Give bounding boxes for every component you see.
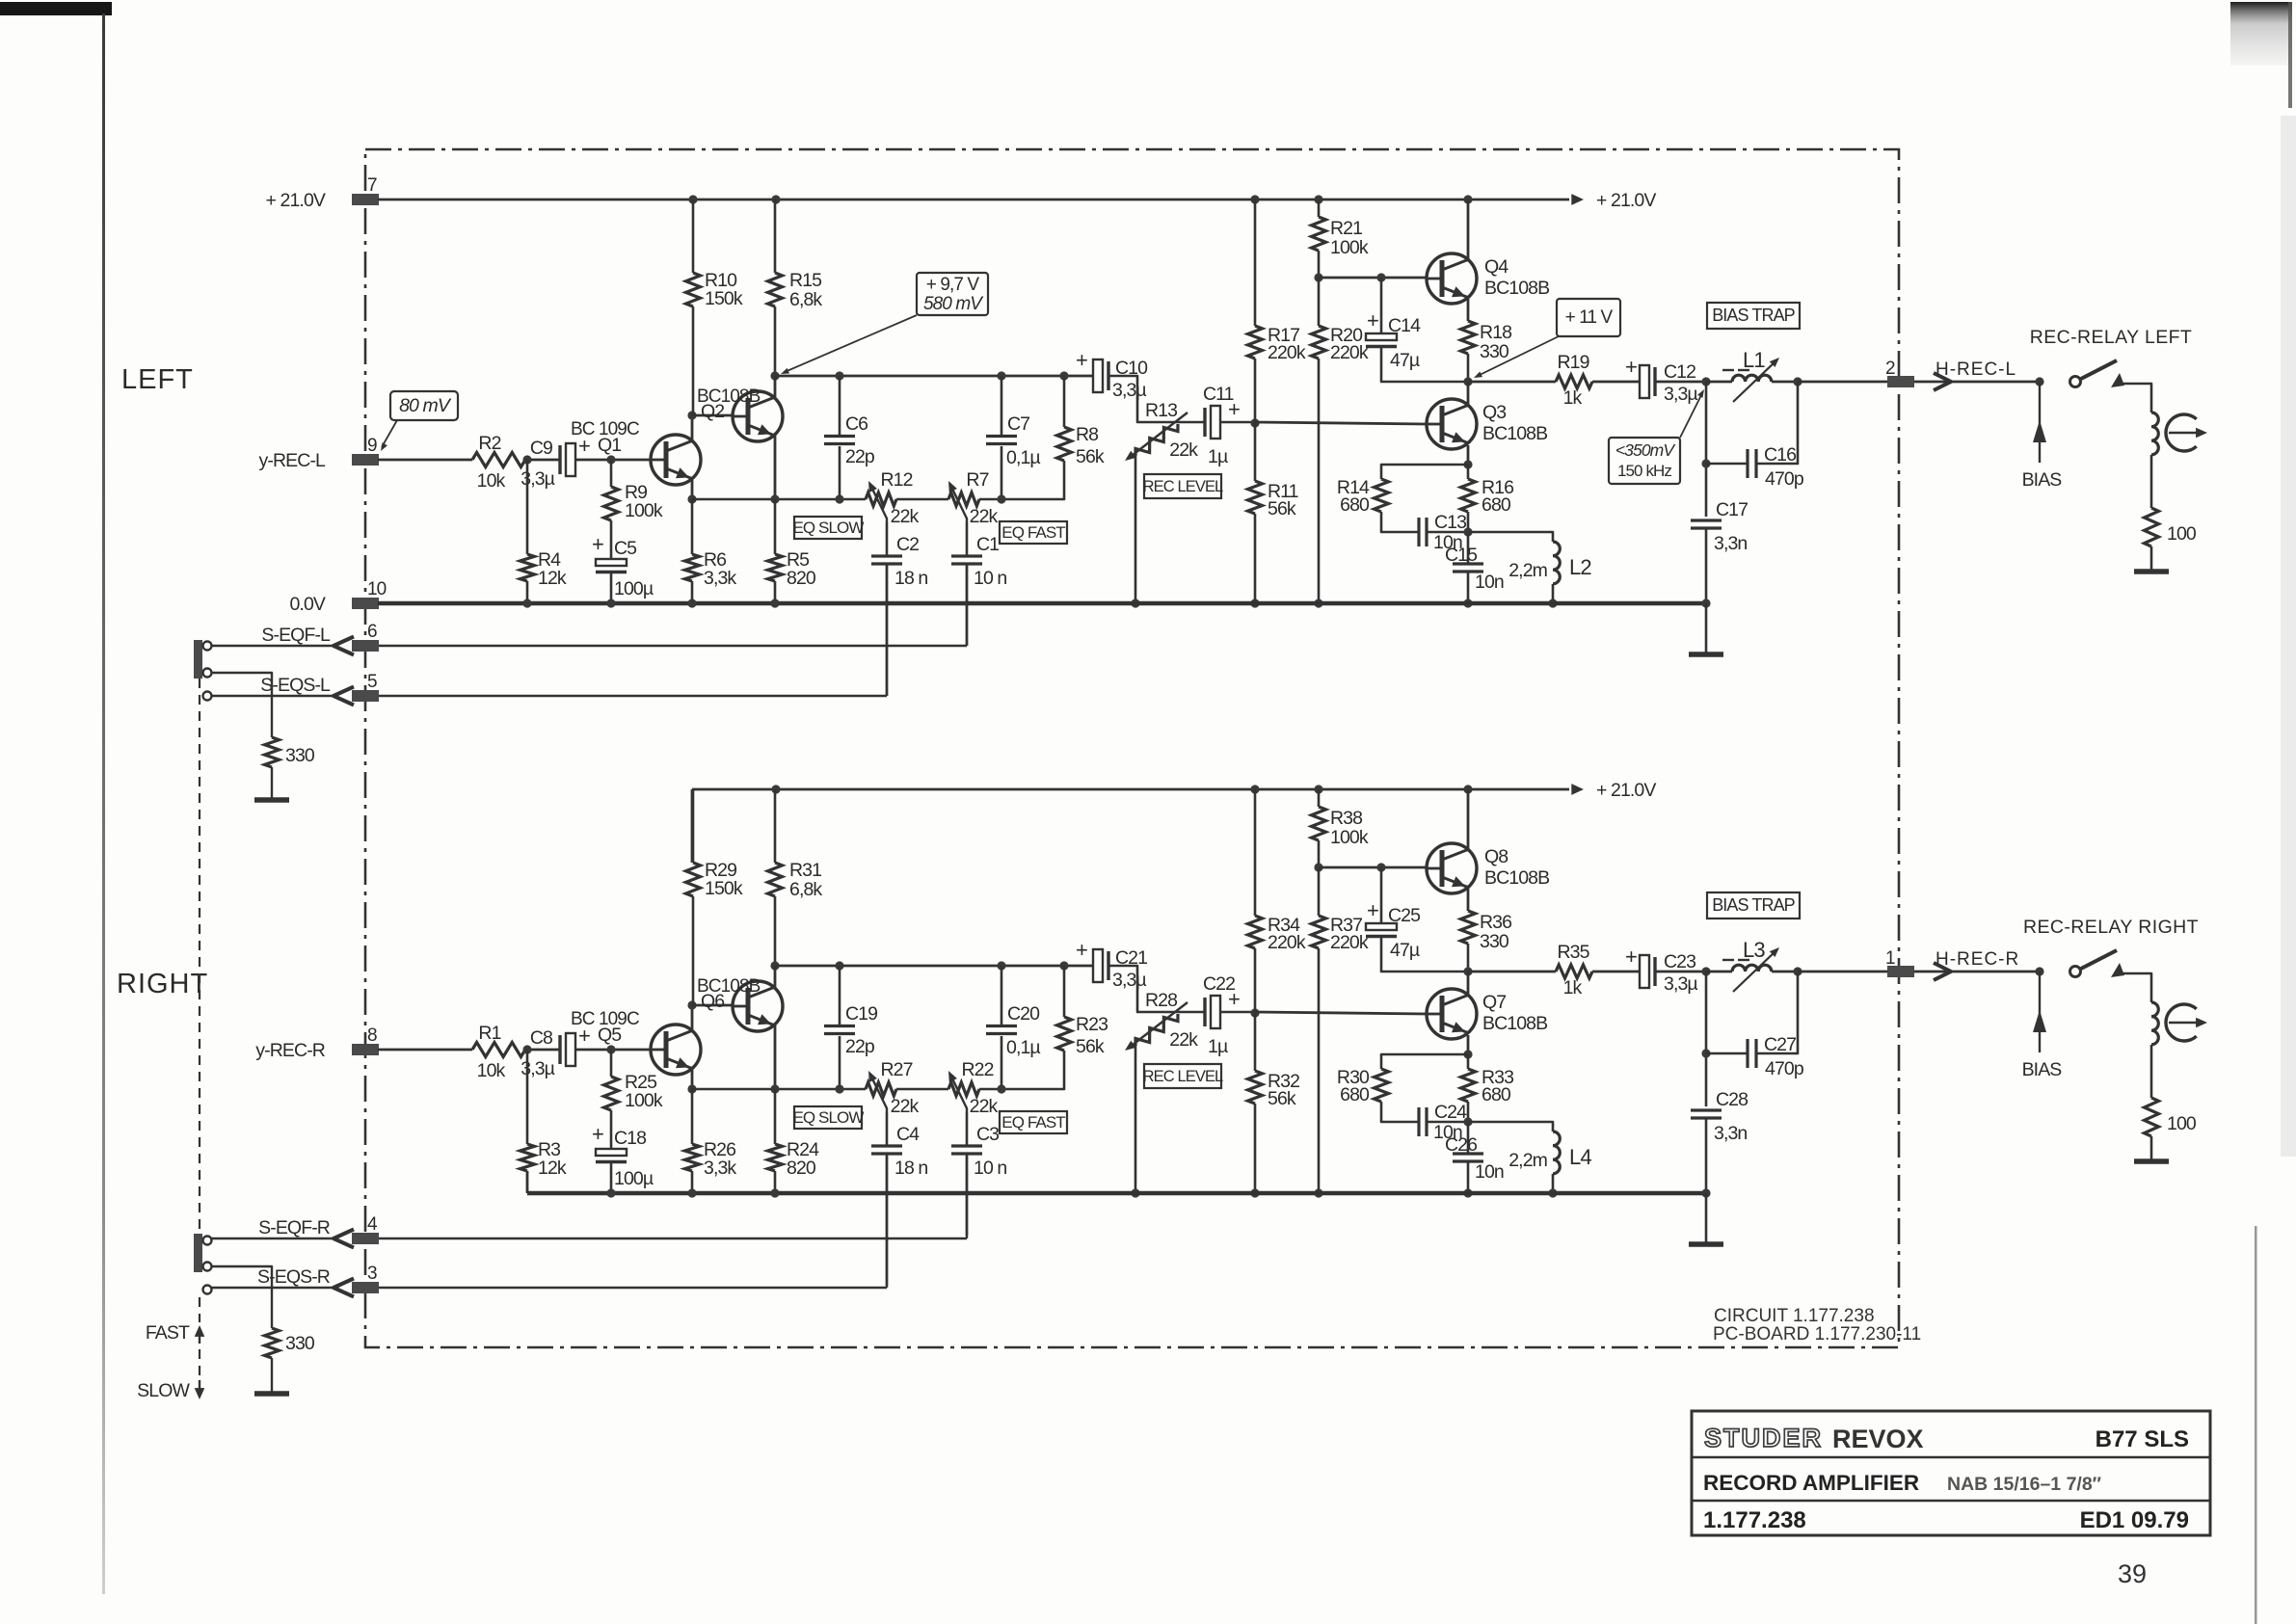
resistor R37 [1312,916,1326,948]
node C6 top [835,371,843,380]
node R34/R32 [1250,1008,1259,1017]
wire R20 L [1318,278,1321,326]
wire BIAS R [2039,972,2041,1052]
wire pin-head L [1914,381,2040,384]
svg-text:BC108B: BC108B [1482,423,1547,444]
node BIAS R [2035,967,2043,975]
svg-text:3,3µ: 3,3µ [1664,973,1697,995]
svg-text:C28: C28 [1716,1089,1748,1110]
wire R19-C12 [1592,381,1640,384]
pin 2 L [1887,376,1914,387]
capacitor C25 [1366,923,1397,930]
svg-text:5: 5 [367,672,377,692]
wire 0V rail R [527,1191,1706,1196]
ground head R [2134,1158,2169,1164]
title block frame [1692,1411,2210,1535]
capacitor C9 [558,445,561,474]
node C27 R [1701,1049,1710,1057]
svg-text:R2: R2 [478,433,500,454]
svg-text:330: 330 [285,745,315,766]
wire collector Q5 [691,1005,694,1031]
svg-text:+: + [592,1122,603,1146]
node C7 top [997,371,1005,380]
svg-text:L2: L2 [1569,555,1591,579]
svg-text:3,3n: 3,3n [1714,533,1747,554]
resistor 330 (left) [265,737,280,767]
capacitor C17 [1691,519,1722,521]
wire relay-head L [2122,384,2151,413]
node R37 top [1314,863,1322,871]
svg-text:820: 820 [787,568,816,589]
wire C15 L [1467,532,1470,564]
node C16 L [1701,459,1710,467]
label box EQ SLOW L [794,517,862,539]
wire emitter Q1 [691,480,694,499]
label box REC LEVEL L [1144,474,1221,498]
resistor R3 [521,1144,535,1171]
callout 80 mV [390,391,458,420]
node 0V x=804 R [770,1188,779,1197]
transistor Q6 [733,981,783,1031]
pin 4 (S-EQF-R) [352,1233,379,1244]
wire C6 L [839,376,841,436]
potentiometer R28 [1132,1009,1181,1051]
svg-text:EQ SLOW: EQ SLOW [792,1108,864,1127]
wire 330-gnd (right) [271,1358,273,1392]
svg-text:C26: C26 [1445,1134,1477,1156]
ground 330 (left) [254,797,289,803]
svg-text:1.177.238: 1.177.238 [1703,1507,1806,1533]
arrow BIAS L [2033,420,2046,442]
svg-text:B77 SLS: B77 SLS [2096,1426,2189,1452]
svg-text:R38: R38 [1330,808,1362,829]
relay fixed contact L [2111,373,2124,387]
svg-text:+: + [1228,397,1240,421]
svg-text:22k: 22k [891,506,920,527]
node R20 gnd [1314,599,1322,607]
node R37 gnd [1314,1188,1322,1197]
wire C10-R13 [1109,376,1205,422]
wire BIAS L [2039,382,2041,463]
svg-text:1k: 1k [1563,387,1583,409]
svg-text:100k: 100k [625,500,663,521]
svg-text:39: 39 [2118,1559,2147,1588]
svg-text:820: 820 [787,1158,816,1179]
scan artifact right edge band [2281,116,2296,1157]
svg-text:1µ: 1µ [1208,1036,1228,1057]
node R23 top [1059,961,1068,970]
node L4 gnd [1548,1188,1557,1197]
wire bus end L [979,498,1001,501]
wire input L [378,459,472,462]
svg-text:+ 21.0V: + 21.0V [1596,190,1656,211]
node bus C20 [997,1084,1005,1093]
svg-text:3,3µ: 3,3µ [521,468,554,490]
capacitor C7 [986,435,1017,438]
svg-text:+: + [1625,355,1637,379]
svg-text:22p: 22p [845,446,875,467]
wire R15 L [774,200,777,273]
svg-text:+: + [1625,945,1637,969]
node bus R5 [770,494,779,503]
svg-text:<350mV: <350mV [1615,440,1676,460]
wire R100-gnd L [2150,546,2153,571]
ground 330 (right) [254,1391,289,1397]
svg-text:100k: 100k [1330,827,1369,848]
ground under C28 [1689,1241,1723,1247]
node trap right R [1793,967,1802,975]
svg-text:Q1: Q1 [598,435,621,456]
transistor Q8 [1427,843,1477,893]
node Q2 base L [687,411,696,419]
wire L4 R [1468,1122,1553,1131]
node C20 top [997,961,1005,970]
arrow +21V R [1571,784,1584,795]
wire R35-C23 [1592,971,1640,973]
inductor head coil L [2151,413,2158,455]
wire relay-head R [2122,973,2151,1002]
node bus R6 [687,494,696,503]
svg-text:+: + [1076,938,1087,962]
wiper R7 [950,485,967,522]
svg-text:ED1 09.79: ED1 09.79 [2080,1507,2189,1533]
svg-text:47µ: 47µ [1390,350,1420,371]
wire R25 R [610,1050,613,1077]
wire +21V rail L [378,199,1569,201]
wire R28-gnd [1135,1044,1137,1193]
wire S-EQF-R line [210,1238,334,1239]
node collector Q2 [770,371,779,380]
node collector Q6 [770,961,779,970]
capacitor C1 [951,554,982,557]
capacitor C27 [1746,1039,1749,1068]
wire collector Q4 [1467,200,1470,260]
wire emitter Q5 [691,1070,694,1089]
node bus C7 [997,494,1005,503]
wire bus end R [979,1088,1001,1091]
wire pin-head R [1914,971,2040,973]
svg-text:100k: 100k [625,1090,663,1111]
capacitor C19 [824,1025,855,1027]
svg-text:6,8k: 6,8k [789,289,822,310]
node base Q1 [606,455,615,464]
record head symbol L [2166,414,2197,451]
capacitor C13 [1417,518,1420,546]
svg-text:3,3k: 3,3k [704,1158,736,1179]
wire emitter Q8 [1467,889,1470,911]
svg-text:680: 680 [1340,1084,1370,1105]
relay fixed contact R [2111,963,2124,977]
node +21V rail x=1523 R [1463,785,1472,793]
wire collector Q2 [774,376,777,398]
wire S-EQS-L riser [886,566,888,696]
wire R33 R [1467,1054,1470,1069]
transistor Q2 [733,391,783,441]
inductor head coil R [2151,1002,2158,1045]
arrow BIAS R [2033,1010,2046,1032]
svg-text:4: 4 [367,1214,378,1235]
node 0V x=718 L [687,599,696,607]
arrow SLOW [199,1380,200,1394]
svg-text:10n: 10n [1475,1161,1504,1183]
switch EQ left channel [194,640,202,679]
svg-text:6,8k: 6,8k [789,879,822,900]
svg-text:L1: L1 [1743,348,1765,372]
wire C13-node [1427,531,1468,534]
arrow +21V L [1571,194,1584,205]
svg-text:H-REC-R: H-REC-R [1936,949,2019,970]
svg-text:C15: C15 [1445,545,1478,566]
pin 7 (+ 21.0V) [352,194,379,205]
arrow L3 [1733,950,1776,992]
svg-text:R8: R8 [1076,424,1098,445]
svg-text:L4: L4 [1569,1145,1591,1169]
svg-text:330: 330 [1480,341,1509,362]
svg-text:100µ: 100µ [614,1168,654,1189]
svg-text:56k: 56k [1268,498,1296,519]
svg-text:100: 100 [2167,523,2197,545]
svg-text:680: 680 [1340,494,1370,516]
wire R34 R [1254,789,1257,916]
wire C19 R [839,966,841,1025]
wire head-R100 L [2150,455,2153,508]
wiper R12 [870,485,887,522]
scan artifact top-right tab [0,0,1,1]
inductor L4 [1553,1131,1560,1174]
node C14 top [1376,273,1385,281]
capacitor C22 [1203,998,1206,1026]
resistor R24 [768,1144,783,1171]
node rail end L [1701,599,1710,607]
node bus R26 [687,1084,696,1093]
svg-text:150k: 150k [705,878,743,899]
svg-text:EQ FAST: EQ FAST [1001,1113,1065,1131]
node trap left L [1701,377,1710,386]
wire C16-up [1756,382,1798,464]
svg-text:10n: 10n [1475,572,1504,593]
svg-text:Q5: Q5 [598,1025,622,1046]
svg-text:L3: L3 [1743,938,1765,962]
wire caps line R [775,965,1093,968]
wire input R [378,1049,472,1052]
label box EQ FAST R [1000,1111,1067,1133]
wire R24 R [774,1089,777,1144]
capacitor C24 [1417,1107,1420,1136]
node +21V rail x=805 R [771,785,780,793]
wire emitter Q2 [774,436,777,499]
svg-text:R21: R21 [1330,218,1362,239]
wire C7 L [1001,376,1003,436]
resistor R15 [768,273,783,306]
wire R17 L [1254,200,1257,326]
svg-text:80 mV: 80 mV [399,395,452,416]
transistor Q3 [1427,399,1477,449]
svg-text:10k: 10k [477,1060,506,1081]
svg-text:S-EQF-R: S-EQF-R [258,1217,331,1238]
resistor R23 [1057,1017,1072,1051]
svg-text:Q6: Q6 [701,991,724,1012]
wire S-EQF-L riser [966,566,968,646]
node 0V x=634 L [606,599,615,607]
ground head L [2134,569,2169,574]
svg-text:+: + [1367,898,1378,922]
inductor L3 [1732,965,1772,972]
node bus R24 [770,1084,779,1093]
node C25 top [1376,863,1385,871]
capacitor C14 [1366,333,1397,340]
resistor R18 [1461,321,1476,354]
node C19 top [835,961,843,970]
svg-text:R18: R18 [1480,322,1511,343]
svg-text:Q3: Q3 [1482,402,1506,423]
svg-text:REC-RELAY LEFT: REC-RELAY LEFT [2030,327,2193,348]
record head symbol R [2166,1004,2197,1041]
wire L1-node [1772,381,1798,384]
svg-text:9: 9 [367,436,377,456]
svg-text:C18: C18 [614,1128,646,1149]
svg-text:BIAS: BIAS [2022,469,2063,491]
wire R18-out [1467,354,1470,382]
wire R6 L [691,499,694,554]
node BIAS L [2035,377,2043,386]
svg-text:330: 330 [1480,931,1509,952]
wire wiper R13 [1128,413,1188,459]
svg-text:Q4: Q4 [1484,256,1508,278]
wire S-EQS-L line [210,695,334,697]
pin 9 (y-REC-L) [352,454,379,466]
label box BIAS TRAP L [1707,303,1800,329]
svg-text:C9: C9 [530,438,552,459]
svg-text:STUDER: STUDER [1704,1424,1823,1452]
resistor R1 [472,1043,525,1057]
node L2 gnd [1548,599,1557,607]
svg-text:330: 330 [285,1333,315,1354]
node 0V x=718 R [687,1188,696,1197]
wire R11 L [1254,423,1257,481]
svg-text:Q8: Q8 [1484,846,1508,867]
node trap right L [1793,377,1802,386]
svg-text:3: 3 [367,1264,377,1284]
svg-text:680: 680 [1482,1084,1511,1105]
svg-text:SLOW: SLOW [137,1380,190,1401]
wire R5 L [774,499,777,554]
svg-text:680: 680 [1482,494,1511,516]
svg-text:R27: R27 [880,1059,912,1080]
resistor R19 [1556,375,1592,388]
callout pointer 80 mV [382,420,397,447]
svg-text:BC108B: BC108B [1482,1013,1547,1034]
wire out-R19 [1468,381,1556,384]
svg-text:1: 1 [1885,948,1895,969]
wire trap-L1 [1706,381,1732,384]
svg-text:R19: R19 [1557,352,1589,373]
arrow FAST [199,1330,200,1344]
svg-text:C3: C3 [976,1124,999,1145]
svg-text:RECORD AMPLIFIER: RECORD AMPLIFIER [1703,1471,1919,1495]
node C15 gnd [1463,599,1472,607]
node R28 gnd [1131,1188,1139,1197]
node output R [1463,967,1472,975]
wiper R27 [870,1075,887,1112]
svg-text:22k: 22k [970,506,999,527]
svg-text:+: + [592,532,603,556]
wire S-EQF-L line [210,645,334,647]
ground under C17 [1689,652,1723,657]
wire gnd stem R [1705,1193,1708,1243]
wire R21 L [1318,200,1321,217]
resistor R29 [686,863,701,896]
svg-text:C19: C19 [845,1003,877,1025]
wire base Q8 [1319,866,1427,869]
wire +21V rail R [692,788,1569,791]
arrow chevron pin 6 [334,637,354,655]
wire R16 L [1467,465,1470,479]
node +21V rail x=805 L [771,195,780,203]
resistor R2 [472,453,525,467]
svg-text:RIGHT: RIGHT [117,969,208,999]
pin 5 (S-EQS-L) [352,690,379,702]
resistor R14 [1375,479,1389,512]
pin 10 (0.0V) [352,598,379,609]
wire R8 L [1063,376,1066,427]
wire C4 R [886,1112,889,1146]
svg-text:R15: R15 [789,270,822,291]
wire S-EQS-R riser [886,1156,888,1288]
svg-text:12k: 12k [538,1158,567,1179]
callout +9,7V 580mV [917,273,988,315]
relay contact L [2070,377,2081,387]
svg-text:R23: R23 [1076,1014,1108,1035]
resistor R20 [1312,326,1326,359]
callout pointer +9,7V [785,315,917,372]
wire C11-node [1220,421,1255,424]
wire emitter Q4 [1467,299,1470,321]
wire L3-node [1772,971,1798,973]
callout +11V [1557,299,1620,336]
svg-text:+ 11 V: + 11 V [1565,307,1614,328]
svg-text:C12: C12 [1664,361,1695,383]
wire bus mid L [896,498,948,501]
label box REC LEVEL R [1144,1064,1221,1088]
svg-text:22k: 22k [1169,439,1198,461]
wire base Q7 [1255,1012,1427,1014]
svg-text:y-REC-R: y-REC-R [255,1040,326,1061]
svg-text:8: 8 [367,1025,377,1046]
svg-text:R22: R22 [961,1059,993,1080]
resistor R17 [1248,326,1263,359]
svg-text:470p: 470p [1765,1058,1804,1079]
wire R31 R [774,789,777,863]
wire 0V rail L [378,601,1706,606]
svg-text:C8: C8 [530,1027,552,1049]
transistor Q4 [1427,253,1477,304]
svg-text:10k: 10k [477,470,506,492]
resistor 330 (right) [265,1328,280,1358]
svg-text:R7: R7 [966,469,988,491]
svg-text:22k: 22k [1169,1029,1198,1051]
wire C21-R28 [1109,966,1205,1012]
pin 6 (S-EQF-L) [352,640,379,652]
capacitor C23 [1640,955,1649,988]
wire base Q6 [692,1004,733,1007]
node input/R4 L [522,455,531,464]
svg-text:C24: C24 [1434,1102,1467,1123]
svg-text:C5: C5 [614,538,637,559]
node 0V x=547 L [522,599,531,607]
wire emitter Q6 [774,1025,777,1089]
capacitor C10 [1093,359,1103,392]
svg-text:470p: 470p [1765,468,1804,490]
